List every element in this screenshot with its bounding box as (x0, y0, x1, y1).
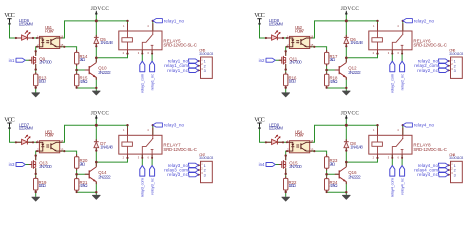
svg-text:relay1_no: relay1_no (164, 18, 185, 23)
svg-text:relay2_com: relay2_com (390, 73, 395, 93)
svg-text:1N4148: 1N4148 (350, 40, 363, 45)
svg-text:3: 3 (204, 69, 206, 73)
svg-text:1: 1 (454, 60, 456, 64)
svg-text:relay2_no: relay2_no (414, 18, 435, 23)
svg-text:VCC: VCC (254, 12, 265, 19)
svg-text:JDVCC: JDVCC (91, 6, 110, 12)
svg-text:1: 1 (204, 60, 206, 64)
svg-text:in1: in1 (9, 58, 15, 63)
svg-text:3: 3 (454, 69, 456, 73)
svg-text:2kΩ: 2kΩ (330, 57, 336, 62)
svg-text:VCC: VCC (254, 117, 265, 124)
svg-text:relay2_nc: relay2_nc (399, 74, 404, 91)
svg-text:2N2222: 2N2222 (98, 174, 111, 179)
svg-text:PC847: PC847 (45, 28, 55, 33)
svg-text:2: 2 (204, 169, 206, 173)
svg-text:relay2_nc: relay2_nc (417, 68, 438, 73)
svg-text:1: 1 (204, 164, 206, 168)
svg-text:2kΩ: 2kΩ (80, 57, 86, 62)
svg-text:4.7kΩ: 4.7kΩ (80, 79, 89, 84)
svg-text:2N7000: 2N7000 (39, 60, 52, 65)
svg-text:VCC: VCC (4, 12, 15, 19)
svg-text:SRD-12VDC-SL-C: SRD-12VDC-SL-C (413, 147, 447, 152)
svg-text:VCC: VCC (4, 117, 15, 124)
svg-text:2N2222: 2N2222 (348, 70, 361, 75)
svg-text:2: 2 (454, 169, 456, 173)
svg-text:1: 1 (454, 164, 456, 168)
svg-text:2N7000: 2N7000 (289, 60, 302, 65)
svg-text:2N7000: 2N7000 (39, 164, 52, 169)
svg-text:PC847: PC847 (295, 28, 305, 33)
svg-text:in4: in4 (259, 162, 265, 167)
svg-text:relay3_com: relay3_com (140, 177, 145, 197)
svg-text:2kΩ: 2kΩ (330, 161, 336, 166)
svg-text:relay3_nc: relay3_nc (167, 172, 188, 177)
svg-text:relay4_nc: relay4_nc (417, 172, 438, 177)
svg-text:31001103: 31001103 (449, 156, 463, 160)
svg-text:31001103: 31001103 (199, 156, 213, 160)
svg-text:3: 3 (454, 173, 456, 177)
svg-text:4.7kΩ: 4.7kΩ (80, 183, 89, 188)
svg-text:1N4148: 1N4148 (100, 40, 113, 45)
svg-text:100Ω: 100Ω (39, 183, 47, 188)
svg-text:100Ω: 100Ω (39, 79, 47, 84)
svg-text:4.7kΩ: 4.7kΩ (330, 183, 339, 188)
svg-text:relay1_nc: relay1_nc (149, 74, 154, 91)
svg-text:4.7kΩ: 4.7kΩ (330, 79, 339, 84)
svg-text:3: 3 (204, 173, 206, 177)
svg-text:in3: in3 (9, 162, 15, 167)
svg-text:100Ω: 100Ω (289, 79, 297, 84)
svg-text:JDVCC: JDVCC (91, 111, 110, 117)
svg-text:SRD-12VDC-SL-C: SRD-12VDC-SL-C (163, 43, 197, 48)
svg-text:relay1_nc: relay1_nc (167, 68, 188, 73)
svg-text:2: 2 (454, 64, 456, 68)
svg-text:SRD-12VDC-SL-C: SRD-12VDC-SL-C (163, 147, 197, 152)
svg-text:1N4148: 1N4148 (100, 144, 113, 149)
svg-text:2kΩ: 2kΩ (80, 161, 86, 166)
svg-text:2: 2 (204, 64, 206, 68)
svg-text:relay4_no: relay4_no (414, 123, 435, 128)
svg-text:100Ω: 100Ω (289, 183, 297, 188)
svg-text:LED-3MM: LED-3MM (19, 21, 34, 26)
svg-text:relay3_nc: relay3_nc (149, 178, 154, 195)
svg-text:2N2222: 2N2222 (98, 70, 111, 75)
svg-text:2N7000: 2N7000 (289, 164, 302, 169)
svg-text:relay1_com: relay1_com (140, 73, 145, 93)
svg-text:PC847: PC847 (45, 133, 55, 138)
svg-text:relay3_no: relay3_no (164, 123, 185, 128)
svg-text:relay4_nc: relay4_nc (399, 178, 404, 195)
svg-text:PC847: PC847 (295, 133, 305, 138)
svg-text:31001103: 31001103 (199, 52, 213, 56)
svg-text:JDVCC: JDVCC (341, 6, 360, 12)
svg-text:LED-3MM: LED-3MM (269, 126, 284, 131)
svg-text:1N4148: 1N4148 (350, 144, 363, 149)
svg-text:JDVCC: JDVCC (341, 111, 360, 117)
svg-text:2N2222: 2N2222 (348, 174, 361, 179)
svg-text:in2: in2 (259, 58, 265, 63)
svg-text:LED-3MM: LED-3MM (19, 126, 34, 131)
svg-text:relay4_com: relay4_com (390, 177, 395, 197)
svg-text:31001103: 31001103 (449, 52, 463, 56)
svg-text:SRD-12VDC-SL-C: SRD-12VDC-SL-C (413, 43, 447, 48)
svg-text:LED-3MM: LED-3MM (269, 21, 284, 26)
